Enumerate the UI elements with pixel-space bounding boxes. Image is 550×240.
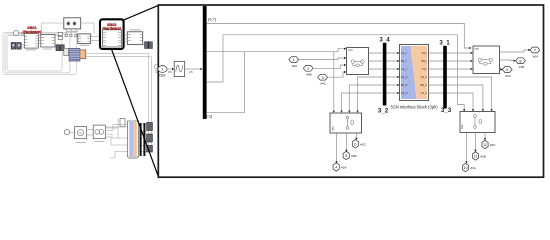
block SBS2 subsystem (103, 30, 122, 47)
output port oval 7 #1A (530, 47, 540, 53)
source block bottom-left (330, 113, 362, 133)
wire riser to bottom-left con (333, 52, 335, 111)
svg-text:6: 6 (354, 142, 356, 146)
svg-text:{4,5}: {4,5} (204, 114, 213, 119)
svg-text:4: 4 (335, 166, 337, 170)
wire SBS1 to neighbour (38, 38, 40, 44)
wires mid-right to SBS2 (91, 37, 100, 41)
svg-text:#1C: #1C (505, 74, 511, 78)
wires S2N right voltages to bus 3_3 (429, 77, 444, 93)
block SBS1 subsystem (24, 34, 38, 49)
output port oval 5 #2B (343, 151, 349, 159)
wire right breaker to #1C (500, 68, 501, 70)
output port oval 8 #1B (516, 58, 526, 64)
output port oval 9 #1C (502, 67, 512, 73)
svg-text:C3_I: C3_I (422, 67, 428, 71)
wire loop rectangle (206, 52, 244, 113)
detail panel frame (158, 5, 543, 177)
wire right block to pair C (143, 43, 145, 45)
svg-text:B3_I: B3_I (422, 59, 428, 63)
wire star to block2 (42, 23, 64, 34)
svg-text:#2C: #2C (360, 142, 366, 146)
wire demux to left breaker con (206, 49, 344, 52)
wire o1 to SBS1 (19, 33, 25, 36)
subsystem group box middle (5, 34, 70, 73)
wires S2N right to bus 3_1 (429, 53, 444, 69)
svg-text:#4A: #4A (292, 64, 297, 68)
svg-text:CB3: CB3 (159, 74, 165, 78)
small stacked blocks (58, 32, 62, 35)
mini bus bar 2 (143, 123, 145, 156)
block right of SBS2 (127, 32, 142, 45)
svg-text:12: 12 (483, 143, 487, 147)
svg-text:#3C: #3C (490, 143, 496, 147)
svg-text:(Hardware): (Hardware) (23, 30, 43, 34)
measurement cluster lavender block (69, 48, 80, 61)
output port oval 6 #2C (352, 140, 358, 148)
svg-text:B4_V: B4_V (421, 83, 428, 87)
inter-row wires (149, 54, 152, 151)
svg-text:com: com (348, 49, 353, 52)
wire star to block3 (81, 23, 94, 34)
wires bottom-left block to ovals (337, 133, 357, 162)
wire oval to source (70, 131, 75, 133)
svg-text:#3B: #3B (481, 155, 486, 159)
junction squares (65, 34, 67, 36)
input port oval CB3 (158, 66, 167, 73)
input port oval 1 #4A (289, 57, 299, 63)
scope pair C (145, 42, 149, 49)
wire long to bottom-right con (223, 35, 464, 110)
bottom row source block (75, 127, 87, 139)
wires SBS2 to right block (124, 35, 128, 42)
svg-text:A1_I: A1_I (401, 51, 407, 55)
svg-text:#1B: #1B (519, 65, 524, 69)
fan wires machine to mini S2N (105, 125, 127, 159)
wire pair A to SBS1 (21, 45, 24, 48)
wires source to machine (87, 130, 94, 136)
svg-text:A2_V: A2_V (401, 75, 408, 79)
bottom row captions (76, 142, 138, 159)
wire #4C to breaker C (327, 72, 344, 77)
svg-text:B2_V: B2_V (401, 83, 408, 87)
wires bottom-right block to ovals (466, 133, 485, 162)
block mid-right (78, 34, 91, 44)
three-phase source block (64, 18, 81, 29)
wires bus 3_4 to S2N voltages (386, 77, 397, 93)
svg-text:C1_I: C1_I (401, 67, 407, 71)
svg-text:4.5: 4.5 (168, 70, 172, 74)
svg-text:com: com (461, 124, 464, 129)
svg-text:#4B: #4B (306, 73, 311, 77)
output port oval 10 #3A (462, 163, 468, 171)
svg-text:#4C: #4C (321, 81, 327, 85)
staircase bus 3_4 to bottom-left block (342, 77, 383, 111)
mini S2N interface block (128, 121, 139, 157)
wire demux branch y82 riser (206, 35, 223, 82)
input port oval 2 #4B (303, 65, 313, 71)
svg-text:3_2: 3_2 (378, 108, 389, 115)
wire neighbour to pair B (55, 45, 56, 47)
bottom row input oval (64, 130, 70, 135)
measurement cluster orange block (80, 50, 86, 59)
input oval o1 (13, 31, 18, 36)
callout line top (123, 5, 158, 20)
oval at panel edge (155, 64, 160, 69)
wires cluster to right column (86, 54, 152, 57)
signal source block (174, 62, 185, 77)
output port oval 4 #2A (333, 163, 339, 171)
wire CB3 to source (167, 68, 172, 70)
staircase bus 3_3 to bottom-right block (447, 77, 492, 109)
svg-text:3_4: 3_4 (379, 37, 390, 44)
svg-text:#2A: #2A (341, 166, 346, 170)
svg-text:3_1: 3_1 (439, 40, 450, 47)
wire #4A to breaker A (299, 58, 345, 60)
svg-text:{6,7}: {6,7} (208, 17, 217, 22)
scope pair B (56, 45, 60, 51)
small block above fan (120, 119, 125, 127)
wire right breaker to #1B (500, 59, 514, 62)
wires bus 3_4 to S2N currents (386, 53, 397, 69)
highlight box SBS2 (100, 19, 124, 49)
measurement cluster gray (64, 48, 69, 55)
svg-text:B1_I: B1_I (401, 59, 407, 63)
svg-text:C2_V: C2_V (401, 91, 408, 95)
svg-text:A4_V: A4_V (421, 75, 428, 79)
wires left breaker to bus 3_4 (369, 53, 383, 69)
input port oval 3 #4C (318, 74, 328, 80)
output port oval 12 #3C (482, 140, 488, 148)
svg-text:SSN Interface Block (3ph): SSN Interface Block (3ph) (390, 105, 438, 110)
svg-text:A3_I: A3_I (422, 51, 428, 55)
wire #4B to breaker B (313, 65, 344, 68)
scope pair A (11, 43, 15, 50)
source output stubs (67, 29, 76, 34)
output port oval 11 #3B (472, 152, 478, 160)
wire demux to right breaker con (206, 23, 469, 48)
svg-text:11: 11 (474, 155, 478, 159)
mini wires across bars (139, 125, 147, 152)
subsystem group box outer (3, 33, 77, 75)
mini bus bar 1 (140, 123, 142, 156)
svg-text:#2B: #2B (351, 154, 356, 158)
svg-text:com: com (332, 126, 335, 131)
callout line bottom (112, 49, 159, 177)
wires bus 3_1 to right breaker (447, 53, 471, 69)
caption smudges (26, 30, 141, 50)
breaker block right (473, 46, 500, 74)
svg-text:3_3: 3_3 (441, 107, 452, 114)
demux bar (203, 6, 207, 119)
subsystem group box inner (7, 36, 62, 72)
svg-text:10: 10 (464, 166, 468, 170)
bus bar 3_4/3_2 (383, 43, 387, 106)
wire right breaker to #1A (500, 50, 529, 52)
svg-text:5: 5 (345, 154, 347, 158)
svg-text:4.5: 4.5 (189, 70, 193, 74)
svg-text:com: com (475, 48, 480, 51)
svg-text:#1A: #1A (533, 54, 538, 58)
block SBS1 right neighbour (41, 35, 55, 48)
wire source to demux (185, 68, 201, 70)
source block bottom-right (460, 112, 495, 133)
bottom row machine block (93, 125, 105, 139)
breaker block left (347, 48, 369, 75)
bus bar 3_1/3_3 (443, 46, 447, 109)
svg-text:C4_V: C4_V (420, 91, 427, 95)
svg-text:#3A: #3A (471, 166, 476, 170)
S2N interface block (400, 45, 429, 101)
mini right blocks (147, 123, 153, 131)
